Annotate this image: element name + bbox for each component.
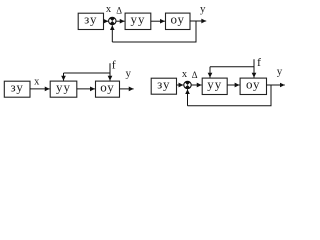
svg-text:уу: уу — [56, 80, 71, 95]
svg-text:зу: зу — [11, 80, 24, 95]
branch wire f to УУ (bottom-right) — [210, 66, 254, 68]
block ОУ (bottom-right) — [240, 77, 266, 95]
svg-text:x: x — [106, 4, 112, 15]
branch arrow into УУ top (bottom-left) — [63, 73, 65, 81]
block ЗУ (bottom-right) — [151, 77, 176, 95]
svg-text:x: x — [182, 69, 188, 80]
feedback wire tap down (top) — [112, 21, 196, 42]
svg-text:y: y — [277, 66, 283, 78]
disturbance wire f into ОУ (bottom-left) — [109, 63, 111, 80]
svg-text:y: y — [200, 3, 206, 15]
wire ЗУ to summing junction (bottom-right) — [177, 84, 184, 86]
svg-text:y: y — [126, 67, 132, 79]
block УУ (bottom-right) — [202, 77, 227, 95]
summing junction (bottom-right) — [184, 81, 191, 88]
wire output y (bottom-right) — [267, 84, 285, 86]
wire УУ to ОУ (top) — [151, 20, 165, 22]
svg-text:f: f — [257, 55, 261, 69]
wire ЗУ to УУ with label x (bottom-left) — [30, 88, 50, 90]
feedback wire up into junction (top) — [111, 25, 113, 42]
svg-text:зу: зу — [157, 77, 170, 92]
summing junction (top) — [109, 17, 116, 24]
disturbance wire f into ОУ (bottom-right) — [253, 59, 255, 77]
svg-text:x: x — [34, 77, 40, 88]
block УУ (bottom-left) — [50, 80, 77, 98]
wire ЗУ to summing junction (top) — [104, 20, 109, 22]
block ОУ (top) — [166, 12, 191, 30]
svg-text:Δ: Δ — [192, 70, 198, 80]
svg-text:f: f — [112, 57, 116, 71]
block ОУ (bottom-left) — [96, 80, 120, 98]
block ЗУ (top) — [78, 12, 103, 30]
svg-text:Δ: Δ — [116, 6, 122, 16]
feedback wire up into junction (bottom-right) — [187, 89, 189, 106]
wire УУ to ОУ (bottom-left) — [77, 88, 95, 90]
branch wire f to УУ (bottom-left) — [64, 72, 111, 74]
block ЗУ (bottom-left) — [4, 80, 30, 98]
block УУ (top) — [125, 12, 151, 30]
svg-text:оу: оу — [246, 77, 261, 92]
svg-text:уу: уу — [131, 12, 146, 27]
svg-text:оу: оу — [100, 80, 115, 95]
branch arrow into УУ top (bottom-right) — [209, 67, 211, 78]
wire summing junction to УУ (top) — [116, 20, 125, 22]
svg-text:зу: зу — [84, 12, 97, 27]
wire output y (bottom-left) — [120, 88, 134, 90]
wire summing junction to УУ (bottom-right) — [191, 84, 202, 86]
wire output y (top) — [190, 20, 206, 22]
svg-text:оу: оу — [170, 12, 185, 27]
wire УУ to ОУ (bottom-right) — [227, 84, 239, 86]
feedback wire tap down (bottom-right) — [188, 85, 272, 106]
svg-text:уу: уу — [207, 77, 222, 92]
